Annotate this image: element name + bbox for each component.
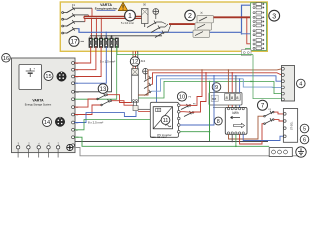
main equipotential line (max 10 mm2) [75,141,268,143]
callout 4 [297,79,306,88]
svg-text:1: 1 [128,13,132,20]
svg-text:2: 2 [188,13,192,20]
red bus from contactor to X3 [214,16,251,18]
svg-text:4: 4 [299,82,302,88]
distribution board enclosure (yellow box) [60,2,267,51]
PE terminal block [269,148,292,157]
SLS main breaker column [142,3,149,27]
wire: green PE line in enclosure [90,38,117,40]
wire: black control line [90,35,162,37]
callout 15 [44,72,53,81]
callout 6 [300,135,309,144]
svg-text:9: 9 [215,85,218,91]
wire: fuse outputs to red bus [85,8,92,22]
wire: breaker 13a out to SLS12 column [108,95,132,103]
wire: cabinet L2 to breaker 13b [74,105,100,115]
red bus L (double line) in enclosure [84,16,142,18]
PV isolator switches [181,104,194,117]
energy storage cabinet (grey box) [12,58,76,153]
smart meter 9 [209,93,242,106]
terminal strip X17 [89,36,118,47]
callout 7 [258,100,268,110]
svg-text:17: 17 [70,39,78,46]
callout 5 [300,124,309,133]
svg-text:ST-SOL: ST-SOL [291,121,294,130]
wire: cabinet L1 to breaker 13a [74,99,96,107]
callout 14 [43,118,52,127]
fuse F2 [62,13,89,20]
contactor K1 (three stacked poles) [193,12,214,38]
PE stud on cabinet [67,144,73,150]
svg-text:5 x 1,5 mm²: 5 x 1,5 mm² [100,60,115,64]
wires SLS12 output to inverter edge [138,108,150,110]
consumer unit X4 [282,66,295,102]
callout 17 [69,36,79,46]
callout 12 [130,57,139,66]
wire: blue stub into X3 [242,33,253,35]
auxiliary box on enclosure edge [242,50,252,56]
callout 2 [185,10,195,20]
earth symbol [296,147,306,157]
meter symbol (circle-cross) [153,9,159,19]
callout 1 [125,10,136,21]
wire: red bus drops to terminal strip [92,18,102,39]
breaker F13b [101,99,112,106]
breaker F7b [264,118,274,124]
wire: inverter PE to PE riser [180,131,209,133]
callout 10 [177,92,186,101]
connector socket (lower) [55,117,64,126]
callout 8 [214,117,222,125]
wires meter 9 to kWh meter 8 [228,105,239,107]
svg-text:F1: F1 [269,109,272,111]
PV inverter 11 [150,102,180,137]
terminal block X3 [251,3,267,51]
X3 terminal rows [253,3,264,50]
junction dots on bus [209,69,254,82]
kWh meter 8 [225,107,247,134]
neutral isolator below SLS12 [133,101,138,110]
VARTA header text [95,3,118,11]
fuse F3 [62,20,85,27]
cable bundle strip X17 to cabinet (5 x 1,5 mm2) [74,47,116,100]
meter symbol at SLS12 [143,68,149,79]
SLS12 breaker column [132,69,139,103]
wire: red branch down to X3 lower row [247,17,252,44]
svg-text:10: 10 [179,95,185,101]
connector socket (upper) [57,72,66,81]
callout 13 [98,84,108,94]
breaker F13a [97,93,108,100]
wire: green PE into X3 bottom [246,49,253,55]
wire: green PE to X4 terminal 5 [251,81,282,93]
wires leaving kWh meter 8 bottom [229,116,284,146]
wire: cabinet N blue to SLS12 area [74,111,136,123]
battery module box [19,65,42,90]
svg-text:L3: L3 [100,36,102,38]
wires bus taps down into meter 9 [228,70,239,93]
svg-text:Energy Storage System: Energy Storage System [25,103,51,106]
wire: breakers 7 to X5 [274,112,283,114]
wire: blue N to X4 terminal 4 [243,79,281,88]
wire: inverter L1 riser to bus [180,70,202,106]
wire: blue drop to strip N [105,32,107,39]
wire: tariff control into kWh meter [213,106,225,108]
svg-text:8: 8 [217,119,220,125]
svg-text:11: 11 [163,118,169,124]
svg-text:13: 13 [100,87,107,93]
wire: pale green PE to X4 terminal 6 [253,55,282,99]
svg-text:L1: L1 [90,36,92,38]
stacked isolating switches beside SLS12 [144,76,152,96]
breaker F7a [264,111,274,117]
wires from enclosure down to SLS12 [133,51,138,69]
svg-text:15: 15 [45,74,51,80]
warning triangle [118,2,127,10]
svg-text:16: 16 [3,56,9,62]
callout 9 [212,83,221,92]
callout 3 [269,10,280,21]
wire: inverter L2 riser to bus [180,73,206,113]
three-phase switch after SLS [147,21,171,38]
cabinet bottom terminals [18,149,58,158]
wire: breaker 13b out to SLS12 column [112,101,133,106]
wire: inverter N riser to bus [180,76,214,125]
terminal box X5 [283,109,297,143]
callout 11 [161,116,170,125]
svg-text:kWh: kWh [232,111,239,115]
wire: green PE line under enclosure [117,45,253,54]
cabinet right-edge terminals [72,62,75,147]
callout 16 [2,54,11,63]
svg-text:max. 10 mm²: max. 10 mm² [150,135,167,139]
wire: cabinet PE green to inverter [74,120,150,130]
svg-text:12: 12 [132,60,139,66]
svg-text:L2: L2 [95,36,97,38]
svg-text:8 x 2,5 mm²: 8 x 2,5 mm² [88,120,103,124]
svg-text:14: 14 [44,120,50,126]
svg-text:F5: F5 [189,97,192,99]
svg-text:3: 3 [272,13,276,20]
svg-text:5 x 16 mm²: 5 x 16 mm² [121,21,134,25]
svg-text:5: 5 [303,127,306,133]
svg-text:SLS: SLS [141,61,146,63]
PE riser down to main PE bus [209,81,211,141]
svg-text:VARTA: VARTA [32,99,44,103]
fuse F4 (neutral) [62,27,78,34]
wire: neutral blue bus across enclosure [78,5,253,32]
red bus segment to contactor [169,23,196,25]
battery symbol [26,68,35,77]
grey earth line from PE stud [73,148,301,158]
distribution bus to house grid (5 lines) [138,69,281,104]
fuse F1 [62,7,92,14]
green PE bottom line [74,137,269,146]
svg-text:6: 6 [303,138,306,144]
